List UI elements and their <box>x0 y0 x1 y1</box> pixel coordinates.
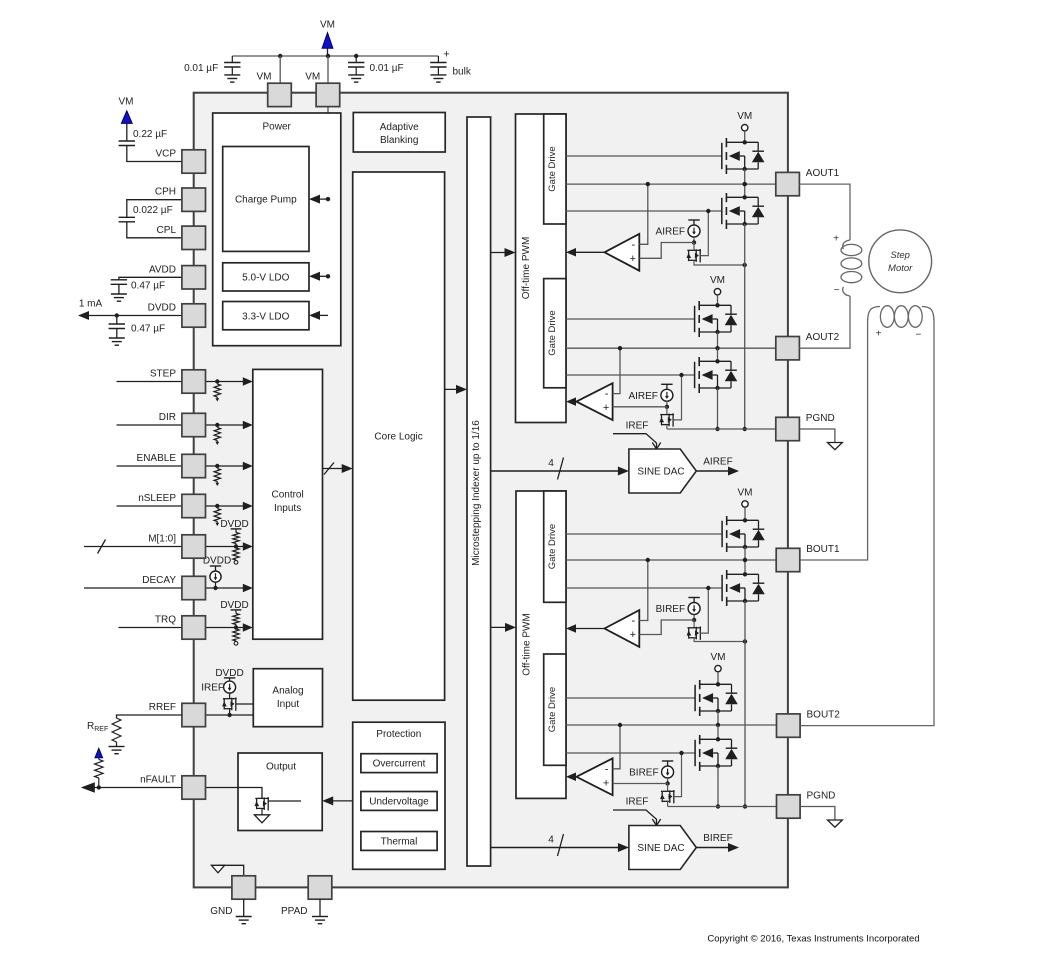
svg-text:-: - <box>631 239 635 251</box>
svg-text:Output: Output <box>266 762 296 773</box>
svg-text:AVDD: AVDD <box>149 264 176 275</box>
svg-text:nFAULT: nFAULT <box>140 775 176 786</box>
svg-text:0.01 µF: 0.01 µF <box>370 63 404 74</box>
svg-text:5.0-V LDO: 5.0-V LDO <box>242 273 289 284</box>
svg-text:VCP: VCP <box>155 149 176 160</box>
svg-text:IREF: IREF <box>626 797 649 808</box>
svg-text:0.01 µF: 0.01 µF <box>184 63 218 74</box>
svg-text:bulk: bulk <box>453 67 472 78</box>
svg-text:VM: VM <box>711 652 726 663</box>
svg-text:+: + <box>443 49 449 61</box>
svg-text:Input: Input <box>277 699 299 710</box>
svg-text:Core Logic: Core Logic <box>374 432 422 443</box>
svg-text:Gate Drive: Gate Drive <box>547 687 558 732</box>
svg-text:Blanking: Blanking <box>380 135 418 146</box>
svg-text:SINE DAC: SINE DAC <box>637 467 684 478</box>
svg-text:AIREF: AIREF <box>656 227 685 238</box>
svg-text:GND: GND <box>210 906 232 917</box>
svg-text:+: + <box>630 629 636 641</box>
svg-text:VM: VM <box>305 72 320 83</box>
svg-text:Adaptive: Adaptive <box>380 122 419 133</box>
svg-text:1 mA: 1 mA <box>79 299 103 310</box>
svg-text:−: − <box>834 285 840 296</box>
svg-text:VM: VM <box>119 97 134 108</box>
svg-text:0.47 µF: 0.47 µF <box>131 281 165 292</box>
svg-text:AIREF: AIREF <box>703 457 732 468</box>
svg-text:0.22 µF: 0.22 µF <box>133 129 167 140</box>
svg-text:+: + <box>630 253 636 265</box>
svg-text:VM: VM <box>710 275 725 286</box>
svg-text:PGND: PGND <box>807 791 836 802</box>
svg-text:ENABLE: ENABLE <box>137 453 177 464</box>
svg-text:AOUT1: AOUT1 <box>806 168 840 179</box>
svg-text:RREF: RREF <box>149 702 176 713</box>
svg-text:DVDD: DVDD <box>203 556 231 567</box>
svg-text:VM: VM <box>737 111 752 122</box>
svg-text:BIREF: BIREF <box>656 604 685 615</box>
svg-text:-: - <box>605 763 609 775</box>
svg-text:Thermal: Thermal <box>381 836 418 847</box>
svg-text:VM: VM <box>257 72 272 83</box>
svg-text:TRQ: TRQ <box>155 615 176 626</box>
svg-text:VM: VM <box>738 488 753 499</box>
svg-text:BOUT1: BOUT1 <box>806 544 840 555</box>
svg-text:Gate Drive: Gate Drive <box>547 524 558 569</box>
svg-text:Off-time PWM: Off-time PWM <box>521 237 532 300</box>
svg-text:AOUT2: AOUT2 <box>806 332 840 343</box>
svg-text:+: + <box>603 777 609 789</box>
svg-text:PPAD: PPAD <box>281 906 308 917</box>
svg-text:CPH: CPH <box>155 187 176 198</box>
svg-text:Gate Drive: Gate Drive <box>547 310 558 355</box>
svg-text:PGND: PGND <box>806 413 835 424</box>
svg-text:Gate Drive: Gate Drive <box>547 146 558 191</box>
svg-text:+: + <box>603 402 609 414</box>
svg-text:+: + <box>833 233 839 244</box>
svg-text:4: 4 <box>548 835 554 846</box>
svg-text:Microstepping Indexer up to 1/: Microstepping Indexer up to 1/16 <box>471 420 482 566</box>
svg-text:Undervoltage: Undervoltage <box>369 796 429 807</box>
svg-text:Motor: Motor <box>888 263 913 274</box>
svg-text:0.022 µF: 0.022 µF <box>133 205 173 216</box>
svg-text:BOUT2: BOUT2 <box>807 710 841 721</box>
svg-text:BIREF: BIREF <box>629 768 658 779</box>
svg-text:+: + <box>876 329 882 340</box>
svg-text:Copyright © 2016, Texas Instru: Copyright © 2016, Texas Instruments Inco… <box>707 934 919 945</box>
svg-text:Off-time PWM: Off-time PWM <box>522 613 533 676</box>
svg-text:Inputs: Inputs <box>274 503 301 514</box>
svg-text:Power: Power <box>263 122 292 133</box>
svg-text:-: - <box>631 615 635 627</box>
svg-text:BIREF: BIREF <box>703 833 732 844</box>
svg-text:AIREF: AIREF <box>628 391 657 402</box>
svg-text:−: − <box>915 330 921 341</box>
svg-text:Step: Step <box>890 250 910 261</box>
svg-text:SINE DAC: SINE DAC <box>637 843 684 854</box>
svg-text:-: - <box>605 388 609 400</box>
svg-text:DIR: DIR <box>159 412 176 423</box>
svg-text:Control: Control <box>271 490 303 501</box>
svg-text:IREF: IREF <box>626 421 649 432</box>
svg-text:M[1:0]: M[1:0] <box>148 534 176 545</box>
svg-text:Analog: Analog <box>272 686 303 697</box>
svg-text:4: 4 <box>548 458 554 469</box>
svg-text:DECAY: DECAY <box>142 575 176 586</box>
svg-text:Overcurrent: Overcurrent <box>373 759 426 770</box>
svg-text:DVDD: DVDD <box>148 303 176 314</box>
svg-text:STEP: STEP <box>150 369 176 380</box>
svg-text:Charge Pump: Charge Pump <box>235 195 297 206</box>
svg-text:0.47 µF: 0.47 µF <box>131 324 165 335</box>
svg-text:nSLEEP: nSLEEP <box>138 493 176 504</box>
svg-text:IREF: IREF <box>201 683 224 694</box>
svg-text:3.3-V LDO: 3.3-V LDO <box>242 311 289 322</box>
svg-text:VM: VM <box>320 20 335 31</box>
svg-text:Protection: Protection <box>376 729 421 740</box>
svg-text:CPL: CPL <box>157 225 177 236</box>
